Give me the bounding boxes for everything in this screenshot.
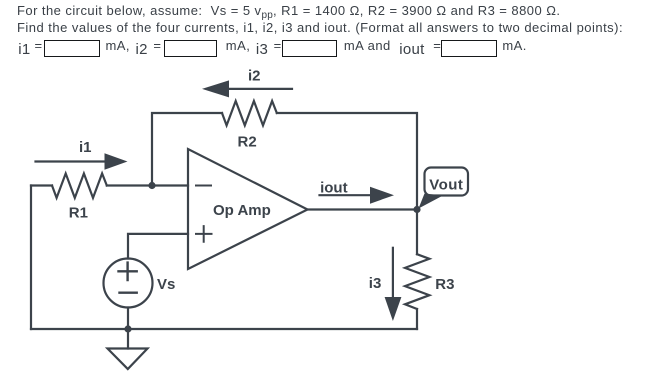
label Vout [429, 176, 463, 193]
answer input box iout [441, 40, 497, 57]
ground symbol [108, 329, 148, 369]
wire: bottom rail [31, 328, 417, 330]
resistor R1 [52, 174, 107, 198]
svg-text:i3: i3 [369, 275, 382, 292]
current arrow iout [320, 187, 395, 204]
label R1 [69, 204, 88, 221]
op-amp U1 [188, 149, 308, 269]
wire: left rail down [30, 186, 32, 330]
label Op Amp [213, 202, 271, 219]
voltage source Vs [104, 259, 153, 308]
op-amp plus sign [196, 226, 212, 242]
current arrow i3 [385, 248, 402, 321]
svg-text:i1: i1 [79, 139, 92, 156]
svg-text:Vout: Vout [429, 176, 463, 193]
Vs plus sign [119, 263, 137, 280]
answer input box i1 [44, 40, 101, 57]
answer line: i1 label [18, 38, 42, 53]
wire: op-amp output to node B [308, 208, 418, 210]
resistor R3 [405, 254, 429, 309]
label iout [320, 180, 348, 197]
label i2 [248, 68, 261, 85]
Vs minus sign [120, 292, 137, 294]
answer input box i3 [282, 40, 337, 57]
label R2 [238, 133, 257, 150]
current arrow i2 [202, 80, 292, 97]
svg-text:R1: R1 [69, 204, 88, 221]
svg-text:R3: R3 [435, 276, 454, 293]
label i1 [79, 139, 92, 156]
wire: top feedback left segment [152, 113, 222, 186]
node B output junction dot [413, 206, 420, 213]
wire: Vs bottom to ground rail [127, 308, 129, 330]
answer input box i2 [164, 40, 217, 57]
wire: top feedback right segment [277, 113, 417, 210]
wire: left input lead [31, 184, 52, 186]
junction dot at ground node [124, 325, 131, 332]
answer line: trailing mA. [502, 38, 526, 53]
label Vs [157, 276, 175, 293]
wire: non-inverting input from Vs [128, 234, 188, 259]
question text line 1 [17, 3, 560, 23]
Vout callout bubble [419, 168, 469, 209]
answer line: mA and iout label [344, 38, 441, 53]
label R3 [435, 276, 454, 293]
wire: node B down to R3 [416, 210, 418, 255]
op-amp minus sign [196, 185, 211, 187]
answer line: mA, i3 label [226, 38, 282, 53]
label i3 [369, 275, 382, 292]
resistor R2 [222, 101, 277, 125]
answer line: mA, i2 label [106, 38, 162, 53]
node A junction dot [148, 182, 155, 189]
svg-text:iout: iout [320, 180, 348, 197]
svg-text:Op Amp: Op Amp [213, 202, 271, 219]
svg-text:i2: i2 [248, 68, 261, 85]
question text line 2 [17, 20, 623, 35]
svg-text:R2: R2 [238, 133, 257, 150]
svg-text:Vs: Vs [157, 276, 175, 293]
wire: R1 to op-amp inverting input [107, 184, 188, 186]
current arrow i1 [36, 153, 128, 169]
wire: R3 bottom to bottom rail [416, 309, 418, 329]
